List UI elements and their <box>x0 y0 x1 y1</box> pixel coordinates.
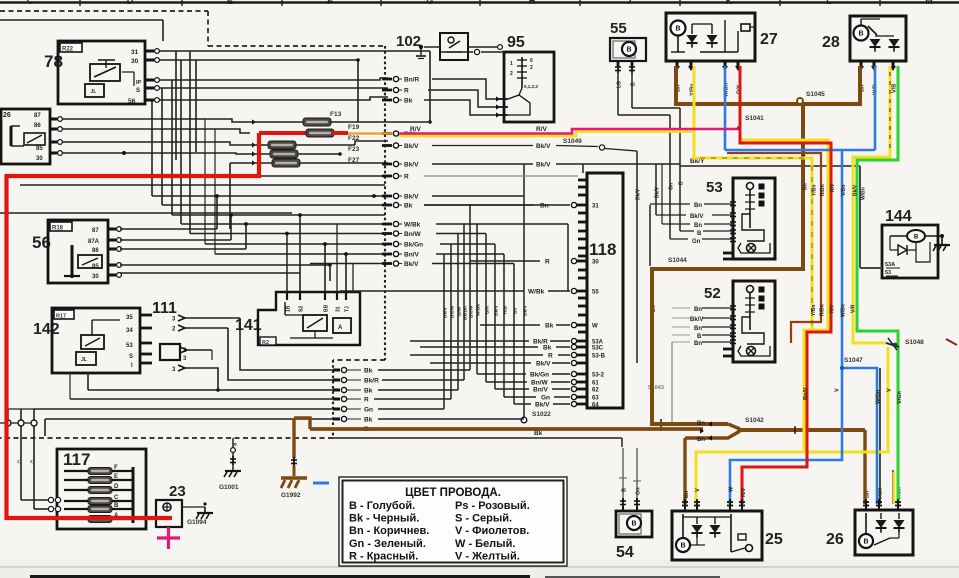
svg-text:F22: F22 <box>348 135 360 142</box>
svg-text:V - Фиолетов.: V - Фиолетов. <box>455 525 529 537</box>
svg-text:R: R <box>545 259 550 266</box>
svg-text:J: J <box>626 0 631 6</box>
svg-text:87: 87 <box>34 113 41 119</box>
svg-text:Bk/V: Bk/V <box>655 186 661 198</box>
svg-text:Bk: Bk <box>364 368 373 375</box>
svg-text:86: 86 <box>34 123 41 129</box>
svg-text:W/Gn: W/Gn <box>876 389 882 404</box>
svg-text:S1044: S1044 <box>668 257 687 264</box>
svg-text:Y/Bn: Y/Bn <box>812 185 818 196</box>
svg-text:W: W <box>729 486 735 492</box>
svg-text:F13: F13 <box>330 111 342 118</box>
svg-text:53-2: 53-2 <box>592 373 605 379</box>
svg-text:Bn/W: Bn/W <box>469 305 475 318</box>
svg-text:Bn: Bn <box>694 341 702 347</box>
svg-text:Bk/V: Bk/V <box>404 143 419 150</box>
svg-text:55: 55 <box>592 290 599 296</box>
svg-text:B: B <box>697 231 702 237</box>
svg-text:B/R: B/R <box>485 305 491 314</box>
svg-text:Bk/V: Bk/V <box>690 317 703 323</box>
svg-text:61: 61 <box>592 381 599 387</box>
svg-text:144: 144 <box>885 208 912 225</box>
svg-text:Gn: Gn <box>669 183 675 190</box>
svg-text:F27: F27 <box>348 157 360 164</box>
svg-text:56: 56 <box>128 98 136 105</box>
svg-text:IP: IP <box>136 80 142 86</box>
svg-text:63: 63 <box>592 396 599 402</box>
svg-text:Bn/R: Bn/R <box>404 77 419 84</box>
svg-text:R/V: R/V <box>536 126 548 133</box>
svg-text:52: 52 <box>704 285 721 302</box>
svg-text:Bk/V: Bk/V <box>404 261 419 268</box>
svg-text:111: 111 <box>152 300 177 317</box>
svg-text:Bk: Bk <box>364 388 373 395</box>
svg-text:W/Bn: W/Bn <box>841 304 847 317</box>
svg-text:V: V <box>695 488 701 492</box>
svg-text:Gn: Gn <box>541 395 550 402</box>
svg-text:Y/Bn: Y/Bn <box>811 305 817 316</box>
svg-text:Bn/W: Bn/W <box>531 380 548 387</box>
svg-text:B: B <box>622 488 628 492</box>
svg-text:B: B <box>680 543 685 550</box>
svg-text:1: 1 <box>510 61 513 67</box>
svg-text:V: V <box>835 388 841 392</box>
svg-text:D: D <box>127 0 134 6</box>
svg-text:0,1,2,3: 0,1,2,3 <box>524 84 538 89</box>
svg-text:S1041: S1041 <box>745 115 764 122</box>
svg-text:Bk: Bk <box>364 417 373 424</box>
svg-text:55: 55 <box>610 20 627 37</box>
svg-text:V/R: V/R <box>851 304 857 313</box>
svg-text:V/Bn: V/Bn <box>841 185 847 196</box>
svg-text:30: 30 <box>36 156 43 162</box>
svg-text:117: 117 <box>63 450 90 469</box>
svg-text:2: 2 <box>510 71 513 77</box>
svg-text:31: 31 <box>592 204 599 210</box>
svg-text:E: E <box>227 0 233 6</box>
svg-text:35: 35 <box>126 315 133 321</box>
svg-text:R: R <box>404 88 409 95</box>
svg-text:78: 78 <box>44 52 63 71</box>
svg-text:Bn: Bn <box>697 421 705 427</box>
svg-text:S - Серый.: S - Серый. <box>455 513 512 525</box>
svg-text:ЦВЕТ ПРОВОДА.: ЦВЕТ ПРОВОДА. <box>405 487 501 499</box>
svg-text:B: B <box>631 521 636 528</box>
svg-text:85: 85 <box>92 264 99 270</box>
svg-text:23: 23 <box>169 483 186 500</box>
svg-text:Bk/V: Bk/V <box>536 162 551 169</box>
svg-text:G1094: G1094 <box>187 519 207 526</box>
svg-text:Gn: Gn <box>636 487 642 495</box>
svg-text:Bk/V: Bk/V <box>404 162 419 169</box>
svg-text:Bn: Bn <box>513 308 519 314</box>
svg-text:2: 2 <box>530 65 533 71</box>
svg-text:53C: 53C <box>592 346 604 352</box>
svg-text:W/Bk: W/Bk <box>404 222 421 229</box>
svg-text:28: 28 <box>822 34 840 51</box>
svg-text:Bk: Bk <box>545 323 554 330</box>
svg-text:V - Желтый.: V - Желтый. <box>455 550 520 562</box>
svg-text:A: A <box>338 325 343 331</box>
svg-text:64: 64 <box>592 403 599 409</box>
svg-text:V: V <box>887 388 893 392</box>
svg-text:R: R <box>364 397 369 404</box>
svg-text:R/B: R/B <box>503 305 509 314</box>
svg-text:31: 31 <box>131 49 139 56</box>
svg-text:Gn: Gn <box>692 239 701 245</box>
svg-text:54: 54 <box>616 544 634 561</box>
svg-text:6: 6 <box>530 58 533 64</box>
svg-text:Bk/V: Bk/V <box>494 305 500 316</box>
svg-text:B: B <box>697 334 702 340</box>
svg-text:31: 31 <box>336 306 342 312</box>
svg-text:S1042: S1042 <box>745 417 764 424</box>
svg-text:S1049: S1049 <box>563 138 582 145</box>
svg-text:B: B <box>679 181 685 185</box>
svg-text:87A: 87A <box>88 239 100 245</box>
svg-text:30: 30 <box>131 58 139 65</box>
svg-text:53: 53 <box>706 179 723 196</box>
svg-text:B: B <box>675 26 680 33</box>
svg-text:2): 2) <box>17 459 22 464</box>
svg-text:G: G <box>426 0 433 6</box>
svg-text:Bk/V: Bk/V <box>853 184 859 196</box>
svg-text:Bn - Коричнев.: Bn - Коричнев. <box>349 525 429 537</box>
svg-text:Bk/R: Bk/R <box>364 378 379 385</box>
svg-text:W - Белый.: W - Белый. <box>455 538 515 550</box>
svg-text:W/Bk: W/Bk <box>528 289 545 296</box>
svg-text:62: 62 <box>592 388 599 394</box>
svg-text:Bk/V: Bk/V <box>536 143 551 150</box>
svg-text:R2: R2 <box>262 340 269 346</box>
svg-text:BB: BB <box>324 304 330 312</box>
svg-text:V/Gn: V/Gn <box>897 391 903 404</box>
svg-text:Bn/V: Bn/V <box>404 252 419 259</box>
svg-text:S: S <box>129 354 133 360</box>
svg-text:30: 30 <box>592 260 599 266</box>
svg-text:1B: 1B <box>286 305 292 312</box>
svg-text:Ps - Розовый.: Ps - Розовый. <box>455 500 530 512</box>
svg-text:2): 2) <box>30 459 35 464</box>
svg-text:B: B <box>863 539 868 546</box>
svg-text:Bk/Bn: Bk/Bn <box>463 306 469 320</box>
svg-text:26: 26 <box>3 112 11 119</box>
svg-text:142: 142 <box>33 321 60 338</box>
svg-text:Bn: Bn <box>540 203 549 210</box>
svg-text:R/Bn: R/Bn <box>820 184 826 196</box>
svg-text:G1992: G1992 <box>281 492 301 499</box>
svg-text:R/V: R/V <box>741 488 747 498</box>
svg-text:85: 85 <box>36 146 43 152</box>
svg-text:R18: R18 <box>52 226 64 232</box>
svg-text:Bk/V: Bk/V <box>535 402 550 409</box>
svg-text:53: 53 <box>885 270 891 276</box>
svg-text:Bn: Bn <box>684 490 690 498</box>
svg-text:R/V: R/V <box>830 183 836 192</box>
svg-text:F23: F23 <box>348 146 360 153</box>
svg-text:102: 102 <box>396 33 421 50</box>
svg-text:R: R <box>404 174 409 181</box>
svg-text:Gn - Зеленый.: Gn - Зеленый. <box>349 538 426 550</box>
svg-text:86: 86 <box>92 248 99 254</box>
svg-text:B: B <box>914 235 919 241</box>
svg-text:Bn: Bn <box>694 223 702 229</box>
svg-text:F19: F19 <box>348 124 360 131</box>
svg-text:F: F <box>327 0 333 6</box>
svg-text:S1047: S1047 <box>844 357 863 364</box>
svg-text:Bn/V: Bn/V <box>533 387 548 394</box>
svg-text:Bk/V: Bk/V <box>443 307 449 318</box>
svg-text:Bk/Gn: Bk/Gn <box>530 372 549 379</box>
svg-text:30: 30 <box>92 274 99 280</box>
svg-text:25: 25 <box>765 531 783 548</box>
svg-text:R17: R17 <box>56 314 66 320</box>
svg-text:53-B: 53-B <box>592 354 606 360</box>
svg-text:R: R <box>548 353 553 360</box>
svg-text:Bk/V: Bk/V <box>523 305 529 316</box>
svg-text:Bn: Bn <box>694 203 702 209</box>
svg-text:Bn/W: Bn/W <box>450 305 456 318</box>
svg-text:Bn: Bn <box>697 437 705 443</box>
svg-text:G1001: G1001 <box>219 484 239 491</box>
svg-text:95: 95 <box>507 34 525 51</box>
svg-text:R/Bn: R/Bn <box>820 304 826 316</box>
svg-text:Bn/W: Bn/W <box>404 231 421 238</box>
svg-text:R/V: R/V <box>830 304 836 313</box>
svg-text:H: H <box>529 0 536 6</box>
svg-text:W/Bn: W/Bn <box>861 187 867 200</box>
svg-text:W: W <box>592 324 598 330</box>
svg-text:W/Bk: W/Bk <box>476 304 482 316</box>
svg-text:87: 87 <box>92 228 99 234</box>
svg-text:R22: R22 <box>62 47 74 53</box>
svg-text:R/V: R/V <box>410 126 422 133</box>
svg-text:S: S <box>136 88 140 94</box>
svg-text:Bk: Bk <box>404 98 413 105</box>
svg-text:27: 27 <box>760 31 778 48</box>
svg-text:Bn: Bn <box>694 307 702 313</box>
svg-text:R - Красный.: R - Красный. <box>349 550 418 562</box>
svg-text:Bk/V: Bk/V <box>404 194 419 201</box>
svg-text:53A: 53A <box>885 262 895 268</box>
svg-text:C: C <box>27 0 34 6</box>
svg-text:B/W: B/W <box>457 306 463 316</box>
svg-text:Bk/Gn: Bk/Gn <box>404 242 423 249</box>
svg-text:B: B <box>858 31 863 38</box>
svg-text:Bk/V: Bk/V <box>636 188 642 200</box>
svg-text:S1048: S1048 <box>905 339 924 346</box>
svg-text:JL: JL <box>91 89 97 95</box>
svg-text:118: 118 <box>589 240 616 259</box>
svg-text:53: 53 <box>126 343 133 349</box>
svg-text:S1022: S1022 <box>532 411 551 418</box>
svg-text:L: L <box>826 0 832 6</box>
svg-text:Bk/V: Bk/V <box>536 361 551 368</box>
svg-text:S1045: S1045 <box>806 91 825 98</box>
svg-text:Bk: Bk <box>404 203 413 210</box>
svg-text:B - Голубой.: B - Голубой. <box>349 500 415 512</box>
svg-text:B: B <box>626 47 631 54</box>
svg-text:TJ: TJ <box>345 306 351 312</box>
svg-text:Bk/V: Bk/V <box>690 214 703 220</box>
svg-text:34: 34 <box>126 328 133 334</box>
svg-text:JL: JL <box>81 357 87 363</box>
svg-text:Bn: Bn <box>803 183 809 190</box>
svg-text:M: M <box>925 0 933 6</box>
svg-text:Gn: Gn <box>364 407 373 414</box>
svg-text:K: K <box>726 0 733 6</box>
svg-text:S2: S2 <box>299 306 305 312</box>
svg-text:Bk: Bk <box>543 345 552 352</box>
svg-text:26: 26 <box>826 531 844 548</box>
svg-text:Bk - Черный.: Bk - Черный. <box>349 513 419 525</box>
svg-text:Bn: Bn <box>694 326 702 332</box>
svg-text:Bn/V: Bn/V <box>803 387 809 400</box>
svg-text:Bk: Bk <box>534 430 543 437</box>
